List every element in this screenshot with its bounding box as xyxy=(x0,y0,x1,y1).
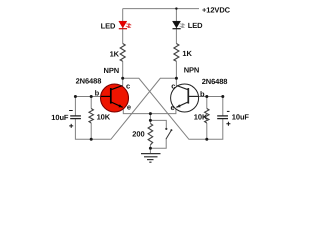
svg-text:e: e xyxy=(127,102,131,111)
svg-text:b: b xyxy=(95,89,100,98)
svg-text:1K: 1K xyxy=(182,49,192,58)
svg-text:1K: 1K xyxy=(110,50,120,59)
svg-text:NPN: NPN xyxy=(184,66,200,75)
svg-text:+12VDC: +12VDC xyxy=(202,5,231,14)
svg-text:NPN: NPN xyxy=(104,66,120,75)
svg-text:10uF: 10uF xyxy=(232,113,250,122)
svg-text:c: c xyxy=(171,82,175,91)
svg-text:2N6488: 2N6488 xyxy=(76,77,102,86)
svg-text:2N6488: 2N6488 xyxy=(202,77,228,86)
svg-text:10K: 10K xyxy=(97,113,111,122)
svg-text:10K: 10K xyxy=(194,113,208,122)
svg-text:e: e xyxy=(171,103,175,112)
svg-text:c: c xyxy=(126,81,130,90)
svg-text:200: 200 xyxy=(132,130,144,139)
svg-text:b: b xyxy=(200,89,205,98)
svg-text:LED: LED xyxy=(188,21,203,30)
svg-text:LED: LED xyxy=(101,21,116,30)
svg-text:10uF: 10uF xyxy=(51,113,69,122)
